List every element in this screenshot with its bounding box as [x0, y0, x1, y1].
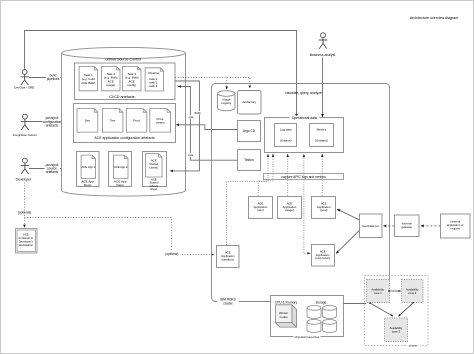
svg-text:load balancer: load balancer [362, 224, 379, 228]
svg-text:cluster: cluster [223, 301, 233, 305]
svg-text:Business analyst: Business analyst [310, 53, 336, 57]
doc Prod [126, 109, 147, 133]
doc Dev [77, 109, 98, 133]
box Tekton [238, 150, 261, 171]
svg-text:Availability: Availability [406, 287, 419, 291]
box availability zones cluster (dashed) [365, 276, 429, 346]
svg-text:Artifactory: Artifactory [243, 100, 257, 104]
doc Test [102, 109, 123, 133]
wire ROKS edge stub [389, 276, 391, 281]
svg-text:(sandbox): (sandbox) [221, 257, 234, 261]
svg-text:(Kibana): (Kibana) [280, 138, 291, 142]
wire capture prod [321, 154, 323, 196]
wire business analyst to operational data [322, 58, 324, 117]
wire capture stage [287, 154, 289, 196]
wire ext app to gateway [421, 225, 441, 227]
svg-text:Log data: Log data [280, 128, 292, 132]
svg-text:Prod: Prod [133, 119, 140, 123]
box ACE Application prod-canary [312, 245, 335, 267]
svg-text:Developer's: Developer's [19, 239, 34, 243]
box Operational data [265, 118, 344, 153]
wire dashed CI/CD to Artifactory [175, 78, 250, 89]
cube Worker nodes [275, 305, 296, 327]
svg-text:prod-canary: prod-canary [315, 256, 331, 260]
wire Tekton to CI/CD artefacts (code) [178, 87, 237, 161]
cylinder disk 2 [323, 306, 337, 319]
doc Task 3 [123, 67, 142, 91]
label BARs [195, 111, 201, 115]
svg-text:config): config) [127, 83, 136, 87]
svg-text:zone 1: zone 1 [374, 291, 383, 295]
box ACE App Repo 1 [77, 152, 100, 187]
cylinder image registry [218, 91, 236, 111]
wire push/pull configuration artefacts [29, 121, 72, 123]
box external gateway [395, 215, 420, 237]
svg-text:canary: canary [156, 121, 166, 125]
box ACE Container or Developer's Workstation [16, 229, 38, 254]
box ACE Application (prod) [312, 197, 336, 219]
svg-text:Argo CD: Argo CD [243, 129, 256, 133]
svg-text:Integration Admin: Integration Admin [13, 133, 37, 137]
cylinder disk 4 [323, 320, 337, 333]
wire optional dashed to sandbox [25, 218, 215, 255]
svg-text:pipelines: pipelines [47, 77, 60, 81]
actor DevOps / SRE [20, 70, 28, 85]
box ACE Application (dev) [249, 197, 273, 219]
svg-text:registry: registry [221, 101, 231, 105]
svg-text:Repo: Repo [84, 183, 92, 187]
doc ACE App 2 [114, 155, 129, 178]
box ACE application configuration artefacts [74, 104, 176, 143]
wire capture sandbox [227, 154, 268, 245]
box Argo CD [238, 121, 261, 142]
svg-text:request: request [451, 226, 461, 230]
svg-text:CI/CD artefacts: CI/CD artefacts [109, 95, 134, 99]
wire capture prod-canary [304, 154, 310, 253]
svg-text:ACE App 2: ACE App 2 [114, 165, 128, 169]
svg-text:ACE: ACE [23, 233, 29, 237]
svg-text:Pipeline: Pipeline [148, 71, 159, 75]
wire Developer optional dashed down to workstation [24, 183, 26, 228]
svg-text:- task 3: - task 3 [148, 84, 158, 88]
box ACE Shared Library Repo [143, 152, 167, 187]
box physical resources [271, 296, 344, 337]
actor Integration Admin [21, 114, 29, 130]
svg-text:ACE application configuration: ACE application configuration artefacts [94, 136, 155, 140]
box Availability zone 3 [385, 318, 408, 342]
doc Task 2 [102, 67, 121, 91]
box ACE Application (sandbox) [217, 246, 240, 268]
svg-text:artefacts: artefacts [46, 123, 59, 127]
doc ACE Shared Library [146, 154, 163, 177]
svg-text:(Grafana): (Grafana) [315, 138, 328, 142]
svg-text:visualize, query, analyze: visualize, query, analyze [285, 91, 322, 95]
svg-text:CPU & memory: CPU & memory [275, 300, 298, 304]
svg-text:Metrics: Metrics [317, 128, 327, 132]
wire load balancer to prod-canary [336, 231, 359, 254]
wire push/pull source artefacts [29, 168, 69, 170]
svg-text:Operational data: Operational data [292, 116, 317, 120]
box IBM ROKS cluster [212, 84, 390, 302]
svg-text:cluster: cluster [409, 343, 418, 347]
actor Business analyst [319, 33, 327, 49]
svg-text:Workstation: Workstation [19, 243, 34, 247]
wire build pipelines [29, 77, 73, 79]
doc Pipeline [145, 68, 164, 91]
wire capture dev [258, 154, 273, 196]
svg-text:nodes: nodes [280, 315, 288, 319]
svg-text:Repo: Repo [116, 183, 124, 187]
svg-text:Library: Library [149, 165, 158, 169]
svg-text:(optional): (optional) [18, 210, 31, 214]
svg-text:Github Source Control: Github Source Control [106, 58, 142, 62]
wire zone1 zone3 [372, 304, 394, 316]
svg-text:(prod): (prod) [320, 208, 328, 212]
wire Argo CD to Prod-canary config [176, 125, 237, 130]
svg-text:code: code [188, 154, 194, 157]
svg-text:Architecture overview diagram: Architecture overview diagram [410, 16, 458, 20]
svg-text:Test: Test [110, 119, 116, 123]
box ACE App Repo 2 [109, 152, 132, 187]
cylinder disk 1 [307, 306, 321, 319]
svg-text:Tekton: Tekton [244, 158, 254, 162]
doc ACE App 1 [81, 155, 96, 178]
svg-text:code: code [189, 116, 195, 119]
actor Developer [21, 158, 29, 174]
svg-text:Dev: Dev [85, 119, 91, 123]
svg-text:zone 3: zone 3 [392, 330, 401, 334]
wire zone2 zone3 [399, 304, 413, 316]
svg-text:(optional): (optional) [165, 252, 178, 256]
wire gateway to load balancer [383, 225, 394, 227]
wire DevOps to operational data (visualize) [25, 31, 297, 118]
box Availability zone 2 [402, 280, 424, 303]
cylinder Github Source Control [62, 47, 186, 196]
box Log data (Kibana) [275, 124, 297, 147]
svg-text:DevOps / SRE: DevOps / SRE [14, 86, 34, 90]
wire dotted branch to image registry [226, 78, 228, 90]
wire load balancer to prod [337, 209, 359, 220]
svg-text:storage: storage [316, 300, 327, 304]
cylinder disk 3 [307, 320, 321, 333]
label code [189, 115, 194, 119]
wire zone1 zone2 [391, 290, 401, 292]
svg-text:physical resources: physical resources [295, 335, 320, 339]
svg-text:ACE App 1: ACE App 1 [81, 165, 95, 169]
svg-text:image): image) [106, 83, 115, 87]
svg-text:zone 2: zone 2 [408, 291, 417, 295]
box Artifactory [238, 91, 262, 115]
wire physical resources to zone 1 [344, 303, 367, 305]
doc Task 1 [79, 67, 98, 91]
box ACE Application (stage) [278, 197, 302, 219]
box CI/CD artefacts [75, 63, 176, 100]
label code (tekton) [188, 153, 193, 157]
box load balancer [360, 214, 383, 238]
box capture APIC logs and metrics [264, 174, 344, 180]
svg-text:gateway: gateway [401, 225, 412, 229]
svg-text:Container or: Container or [18, 236, 33, 240]
svg-text:Availability: Availability [390, 326, 403, 330]
box Metrics (Grafana) [310, 124, 334, 147]
svg-text:Developer: Developer [16, 177, 32, 181]
wire CI/CD to ACE Shared Library (BARs) [170, 81, 199, 171]
box external application or request [441, 214, 471, 238]
svg-text:Availability: Availability [371, 287, 384, 291]
doc Prod-canary [150, 109, 171, 133]
svg-text:ACE BAR): ACE BAR) [81, 81, 95, 85]
svg-text:BARs: BARs [195, 112, 202, 115]
svg-text:(stage): (stage) [285, 208, 294, 212]
svg-text:artefacts: artefacts [46, 170, 59, 174]
svg-text:Repo: Repo [151, 187, 158, 191]
svg-text:(dev): (dev) [257, 208, 263, 212]
box Availability zone 1 [367, 280, 390, 303]
